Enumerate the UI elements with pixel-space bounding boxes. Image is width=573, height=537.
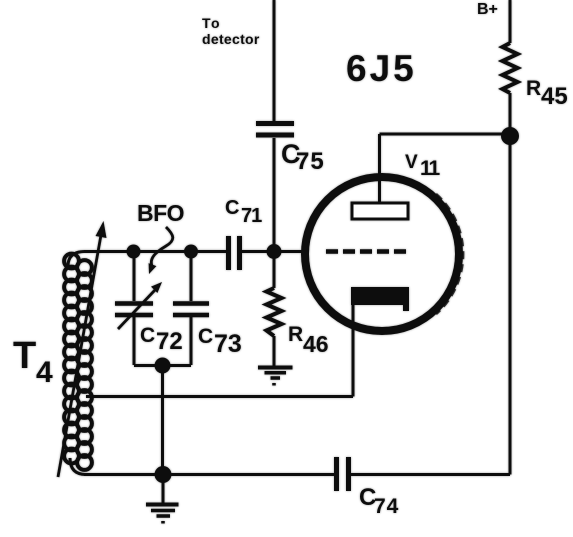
svg-text:V: V [405,152,418,173]
svg-text:R: R [526,77,541,100]
svg-text:C: C [198,325,213,348]
svg-text:46: 46 [303,331,329,357]
svg-text:6J5: 6J5 [346,48,417,89]
svg-text:BFO: BFO [137,200,184,226]
svg-text:71: 71 [241,205,262,227]
svg-text:T: T [13,335,36,377]
svg-text:11: 11 [420,157,441,180]
svg-text:R: R [288,323,303,346]
svg-text:75: 75 [296,148,325,175]
svg-text:72: 72 [156,328,183,355]
svg-text:73: 73 [214,330,242,358]
svg-text:C: C [140,324,155,347]
svg-text:45: 45 [541,83,568,110]
svg-text:To: To [202,15,221,31]
svg-text:74: 74 [374,495,399,518]
svg-text:detector: detector [202,31,260,47]
svg-text:C: C [225,197,239,219]
svg-text:4: 4 [36,356,53,389]
svg-text:B+: B+ [477,1,498,18]
